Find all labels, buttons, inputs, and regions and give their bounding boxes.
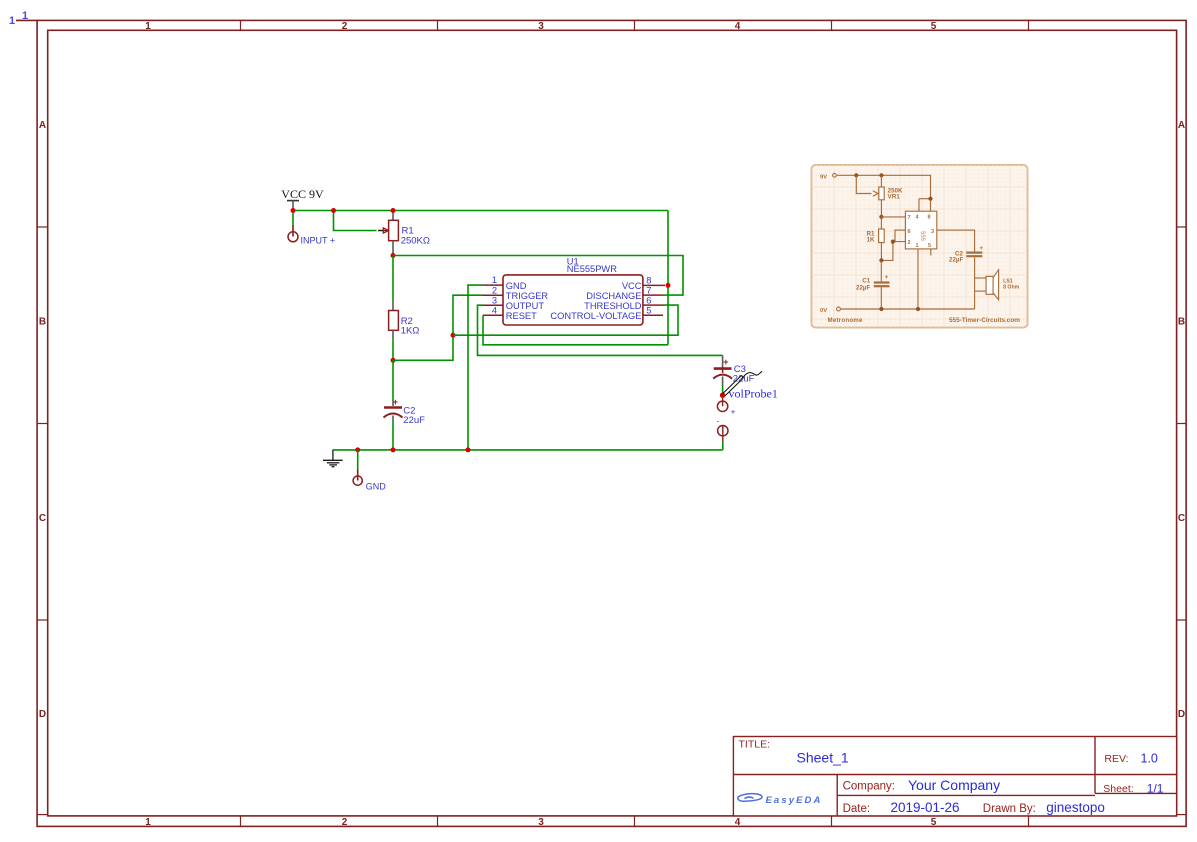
svg-text:Your Company: Your Company: [908, 777, 1000, 793]
svg-text:2: 2: [342, 21, 348, 32]
svg-text:2: 2: [342, 817, 348, 828]
inset resistor R1: [867, 217, 885, 261]
svg-text:0V: 0V: [820, 308, 827, 314]
junction wiper tap: [331, 208, 336, 213]
svg-text:Sheet_1: Sheet_1: [797, 750, 849, 766]
pin 6 THRESHOLD stub: [643, 304, 663, 306]
svg-text:1/1: 1/1: [1147, 781, 1164, 795]
pin 2 TRIGGER stub: [483, 294, 504, 296]
pin 1 GND stub: [483, 284, 504, 286]
inset IC 555: [905, 199, 936, 256]
wire ground rail: [333, 449, 723, 451]
svg-text:A: A: [1178, 120, 1185, 131]
svg-text:22µF: 22µF: [856, 284, 870, 291]
svg-text:CONTROL-VOLTAGE: CONTROL-VOLTAGE: [550, 311, 641, 321]
svg-text:2: 2: [492, 285, 497, 295]
row labels left A-D: [39, 120, 46, 720]
junction VCC at symbol: [291, 208, 296, 213]
svg-text:1: 1: [492, 275, 497, 285]
svg-text:B: B: [39, 317, 46, 328]
inset terminal 0V and bottom rail: [820, 307, 975, 314]
svg-text:D: D: [39, 709, 46, 720]
EasyEDA logo: [738, 794, 823, 806]
inset junction pin4: [928, 197, 932, 201]
sheet corner page marker 1: [9, 10, 28, 27]
svg-text:VR1: VR1: [888, 194, 901, 201]
svg-text:1: 1: [145, 817, 151, 828]
svg-text:6: 6: [646, 296, 651, 306]
svg-text:THRESHOLD: THRESHOLD: [584, 301, 642, 311]
svg-text:6: 6: [908, 229, 911, 235]
svg-text:5: 5: [928, 243, 931, 249]
inset junction pot bottom: [879, 215, 883, 219]
row tick marks left: [37, 227, 48, 620]
svg-text:22uF: 22uF: [403, 415, 425, 426]
inset speaker LS1: [975, 270, 1020, 309]
ground symbol: [323, 450, 343, 467]
inset junction rail C1: [879, 307, 883, 311]
pin numbers right: [646, 276, 651, 316]
power flag VCC symbol: [287, 201, 299, 211]
svg-text:Drawn By:: Drawn By:: [983, 803, 1036, 815]
svg-text:EasyEDA: EasyEDA: [766, 795, 823, 806]
IC U1 NE555PWR body: [503, 275, 643, 325]
wire C2 top lead: [392, 360, 394, 400]
svg-text:volProbe1: volProbe1: [729, 386, 778, 400]
pin numbers left: [492, 275, 497, 315]
svg-text:2019-01-26: 2019-01-26: [891, 800, 960, 815]
wire DISCHARGE net: [393, 256, 683, 296]
corner step bottom-left: [37, 814, 48, 816]
sheet corner marker line: [16, 19, 37, 21]
potentiometer R1 wiper arrow: [378, 228, 389, 233]
svg-text:3: 3: [492, 295, 497, 305]
junction pin8 VCC: [666, 283, 671, 288]
svg-text:DISCHANGE: DISCHANGE: [586, 291, 641, 301]
label U1 refdes: [567, 256, 617, 274]
svg-text:B: B: [1178, 317, 1185, 328]
svg-text:+: +: [731, 407, 736, 417]
wire C3 to probe: [722, 385, 724, 395]
corner step bottom-right: [1177, 814, 1187, 816]
pin 5 CONTROL-VOLTAGE stub: [643, 314, 663, 316]
svg-text:1: 1: [916, 243, 919, 249]
column labels bottom 1-5: [145, 817, 937, 828]
svg-text:555-Timer-Circuits.com: 555-Timer-Circuits.com: [949, 317, 1020, 324]
column tick marks bottom: [241, 816, 1029, 827]
svg-text:2: 2: [908, 240, 911, 246]
svg-text:3: 3: [538, 21, 544, 32]
title block right column divider: [1094, 737, 1096, 794]
row tick marks right: [1177, 227, 1187, 620]
wire R2 bottom lead: [392, 340, 394, 360]
svg-text:OUTPUT: OUTPUT: [506, 301, 545, 311]
wire probe minus to rail: [722, 441, 724, 450]
svg-text:9V: 9V: [820, 174, 827, 180]
svg-text:22uF: 22uF: [733, 374, 755, 385]
junction rail C2: [391, 447, 396, 452]
svg-text:5: 5: [646, 306, 651, 316]
svg-text:4: 4: [735, 817, 741, 828]
svg-text:C: C: [39, 513, 46, 524]
pin 7 DISCHARGE stub: [643, 294, 663, 296]
svg-text:GND: GND: [506, 281, 527, 291]
resistor R1 body: [389, 211, 399, 256]
inset wire to IC pin7: [881, 216, 905, 218]
svg-text:4: 4: [492, 305, 497, 315]
svg-text:Metronome: Metronome: [828, 317, 864, 324]
svg-text:1K: 1K: [867, 237, 876, 244]
svg-text:REV:: REV:: [1104, 753, 1128, 765]
svg-text:VCC: VCC: [622, 281, 642, 291]
svg-text:250KΩ: 250KΩ: [401, 236, 430, 247]
port GND: [353, 470, 386, 492]
junction R1 bottom: [391, 253, 396, 258]
svg-text:8: 8: [928, 215, 931, 221]
svg-text:TRIGGER: TRIGGER: [506, 291, 549, 301]
wire THRESHOLD net: [453, 305, 678, 335]
svg-text:A: A: [39, 120, 46, 131]
svg-text:5: 5: [931, 817, 937, 828]
port INPUT+: [288, 226, 335, 246]
junction probe node: [720, 393, 725, 398]
svg-text:+: +: [980, 246, 984, 252]
junction R2 bottom: [391, 358, 396, 363]
label R2 value: [401, 316, 420, 337]
inset junction rail pin1: [916, 307, 920, 311]
probe volProbe1 tip: [723, 371, 762, 395]
wire VCC down to pin8 and RESET join: [667, 211, 669, 345]
inset reference image background: [812, 165, 1028, 328]
wire R1 to R2: [392, 256, 394, 301]
svg-text:Company:: Company:: [843, 781, 895, 793]
svg-text:7: 7: [908, 215, 911, 221]
inset wire pin6 pin2: [895, 230, 905, 242]
svg-text:-: -: [717, 416, 720, 426]
svg-text:1: 1: [9, 15, 15, 27]
svg-text:ginestopo: ginestopo: [1046, 800, 1105, 815]
pin names right: [550, 281, 641, 321]
wire TRIGGER net: [393, 295, 483, 360]
wire RESET net: [483, 315, 668, 345]
resistor R2 body: [389, 301, 399, 341]
svg-text:22µF: 22µF: [949, 257, 963, 264]
inset capacitor C2: [949, 246, 984, 278]
wire VCC rail: [293, 210, 668, 212]
inset junction dots top: [854, 173, 858, 177]
wire INPUT port stem: [292, 211, 294, 227]
svg-text:TITLE:: TITLE:: [739, 738, 771, 750]
svg-text:4: 4: [735, 21, 741, 32]
junction rail pin1: [466, 447, 471, 452]
svg-text:GND: GND: [366, 481, 387, 491]
pin names left: [506, 281, 549, 321]
wire R1 wiper branch: [334, 211, 377, 231]
inset capacitor C1: [856, 261, 890, 309]
inset terminal 9V: [820, 173, 836, 180]
title block row divider: [733, 774, 1176, 776]
wire GND pin1 net: [468, 285, 483, 450]
svg-text:555: 555: [919, 231, 925, 242]
svg-text:INPUT +: INPUT +: [301, 236, 336, 246]
title block outline: [733, 737, 1176, 816]
label C3 value: [733, 364, 755, 384]
svg-text:NE555PWR: NE555PWR: [567, 264, 617, 274]
svg-text:1KΩ: 1KΩ: [401, 326, 420, 337]
svg-text:8 Ohm: 8 Ohm: [1003, 285, 1020, 291]
junction rail GND port: [355, 447, 360, 452]
inset wiper wire: [856, 175, 871, 193]
inset junction pin2: [891, 240, 895, 244]
svg-text:8: 8: [646, 276, 651, 286]
svg-text:+: +: [723, 357, 728, 367]
svg-text:1: 1: [145, 21, 151, 32]
title block sheet row divider: [1095, 792, 1177, 794]
title block company date divider: [837, 794, 1095, 796]
label R1 value: [401, 226, 430, 247]
inset wire top rail: [837, 175, 931, 211]
inset wire pin1 down: [917, 249, 919, 309]
pin 3 OUTPUT stub: [483, 304, 503, 306]
svg-text:7: 7: [646, 286, 651, 296]
inset potentiometer VR1: [873, 175, 903, 217]
svg-text:Sheet:: Sheet:: [1103, 783, 1133, 795]
svg-text:D: D: [1178, 709, 1185, 720]
svg-text:+: +: [885, 275, 889, 281]
svg-text:LS1: LS1: [1003, 279, 1013, 285]
inset junction R1 bottom: [879, 258, 883, 262]
svg-text:RESET: RESET: [506, 311, 537, 321]
column labels top 1-5: [145, 21, 937, 32]
svg-text:VCC 9V: VCC 9V: [281, 187, 324, 201]
svg-text:+: +: [393, 397, 398, 407]
row labels right A-D: [1178, 120, 1185, 720]
port probe plus: [717, 395, 735, 416]
svg-text:3: 3: [931, 229, 934, 235]
svg-text:5: 5: [931, 21, 937, 32]
capacitor C3: [713, 355, 732, 385]
label C2 value: [403, 406, 425, 427]
pin 4 RESET stub: [483, 314, 503, 316]
pin 8 VCC stub: [643, 284, 665, 286]
wire GND port stem: [357, 450, 359, 471]
wire C2 bottom lead: [392, 422, 394, 450]
svg-text:1.0: 1.0: [1141, 751, 1158, 765]
inset wire pin3 to C2: [937, 230, 975, 251]
capacitor C2: [384, 397, 403, 422]
svg-text:3: 3: [538, 817, 544, 828]
junction trigger-threshold: [451, 333, 456, 338]
svg-text:C: C: [1178, 513, 1185, 524]
port probe minus: [717, 416, 729, 442]
junction R1 top: [391, 208, 396, 213]
column tick marks top: [241, 20, 1029, 30]
svg-text:Date:: Date:: [843, 803, 871, 815]
wire OUTPUT net: [478, 305, 723, 355]
title block logo cell divider: [836, 775, 838, 816]
